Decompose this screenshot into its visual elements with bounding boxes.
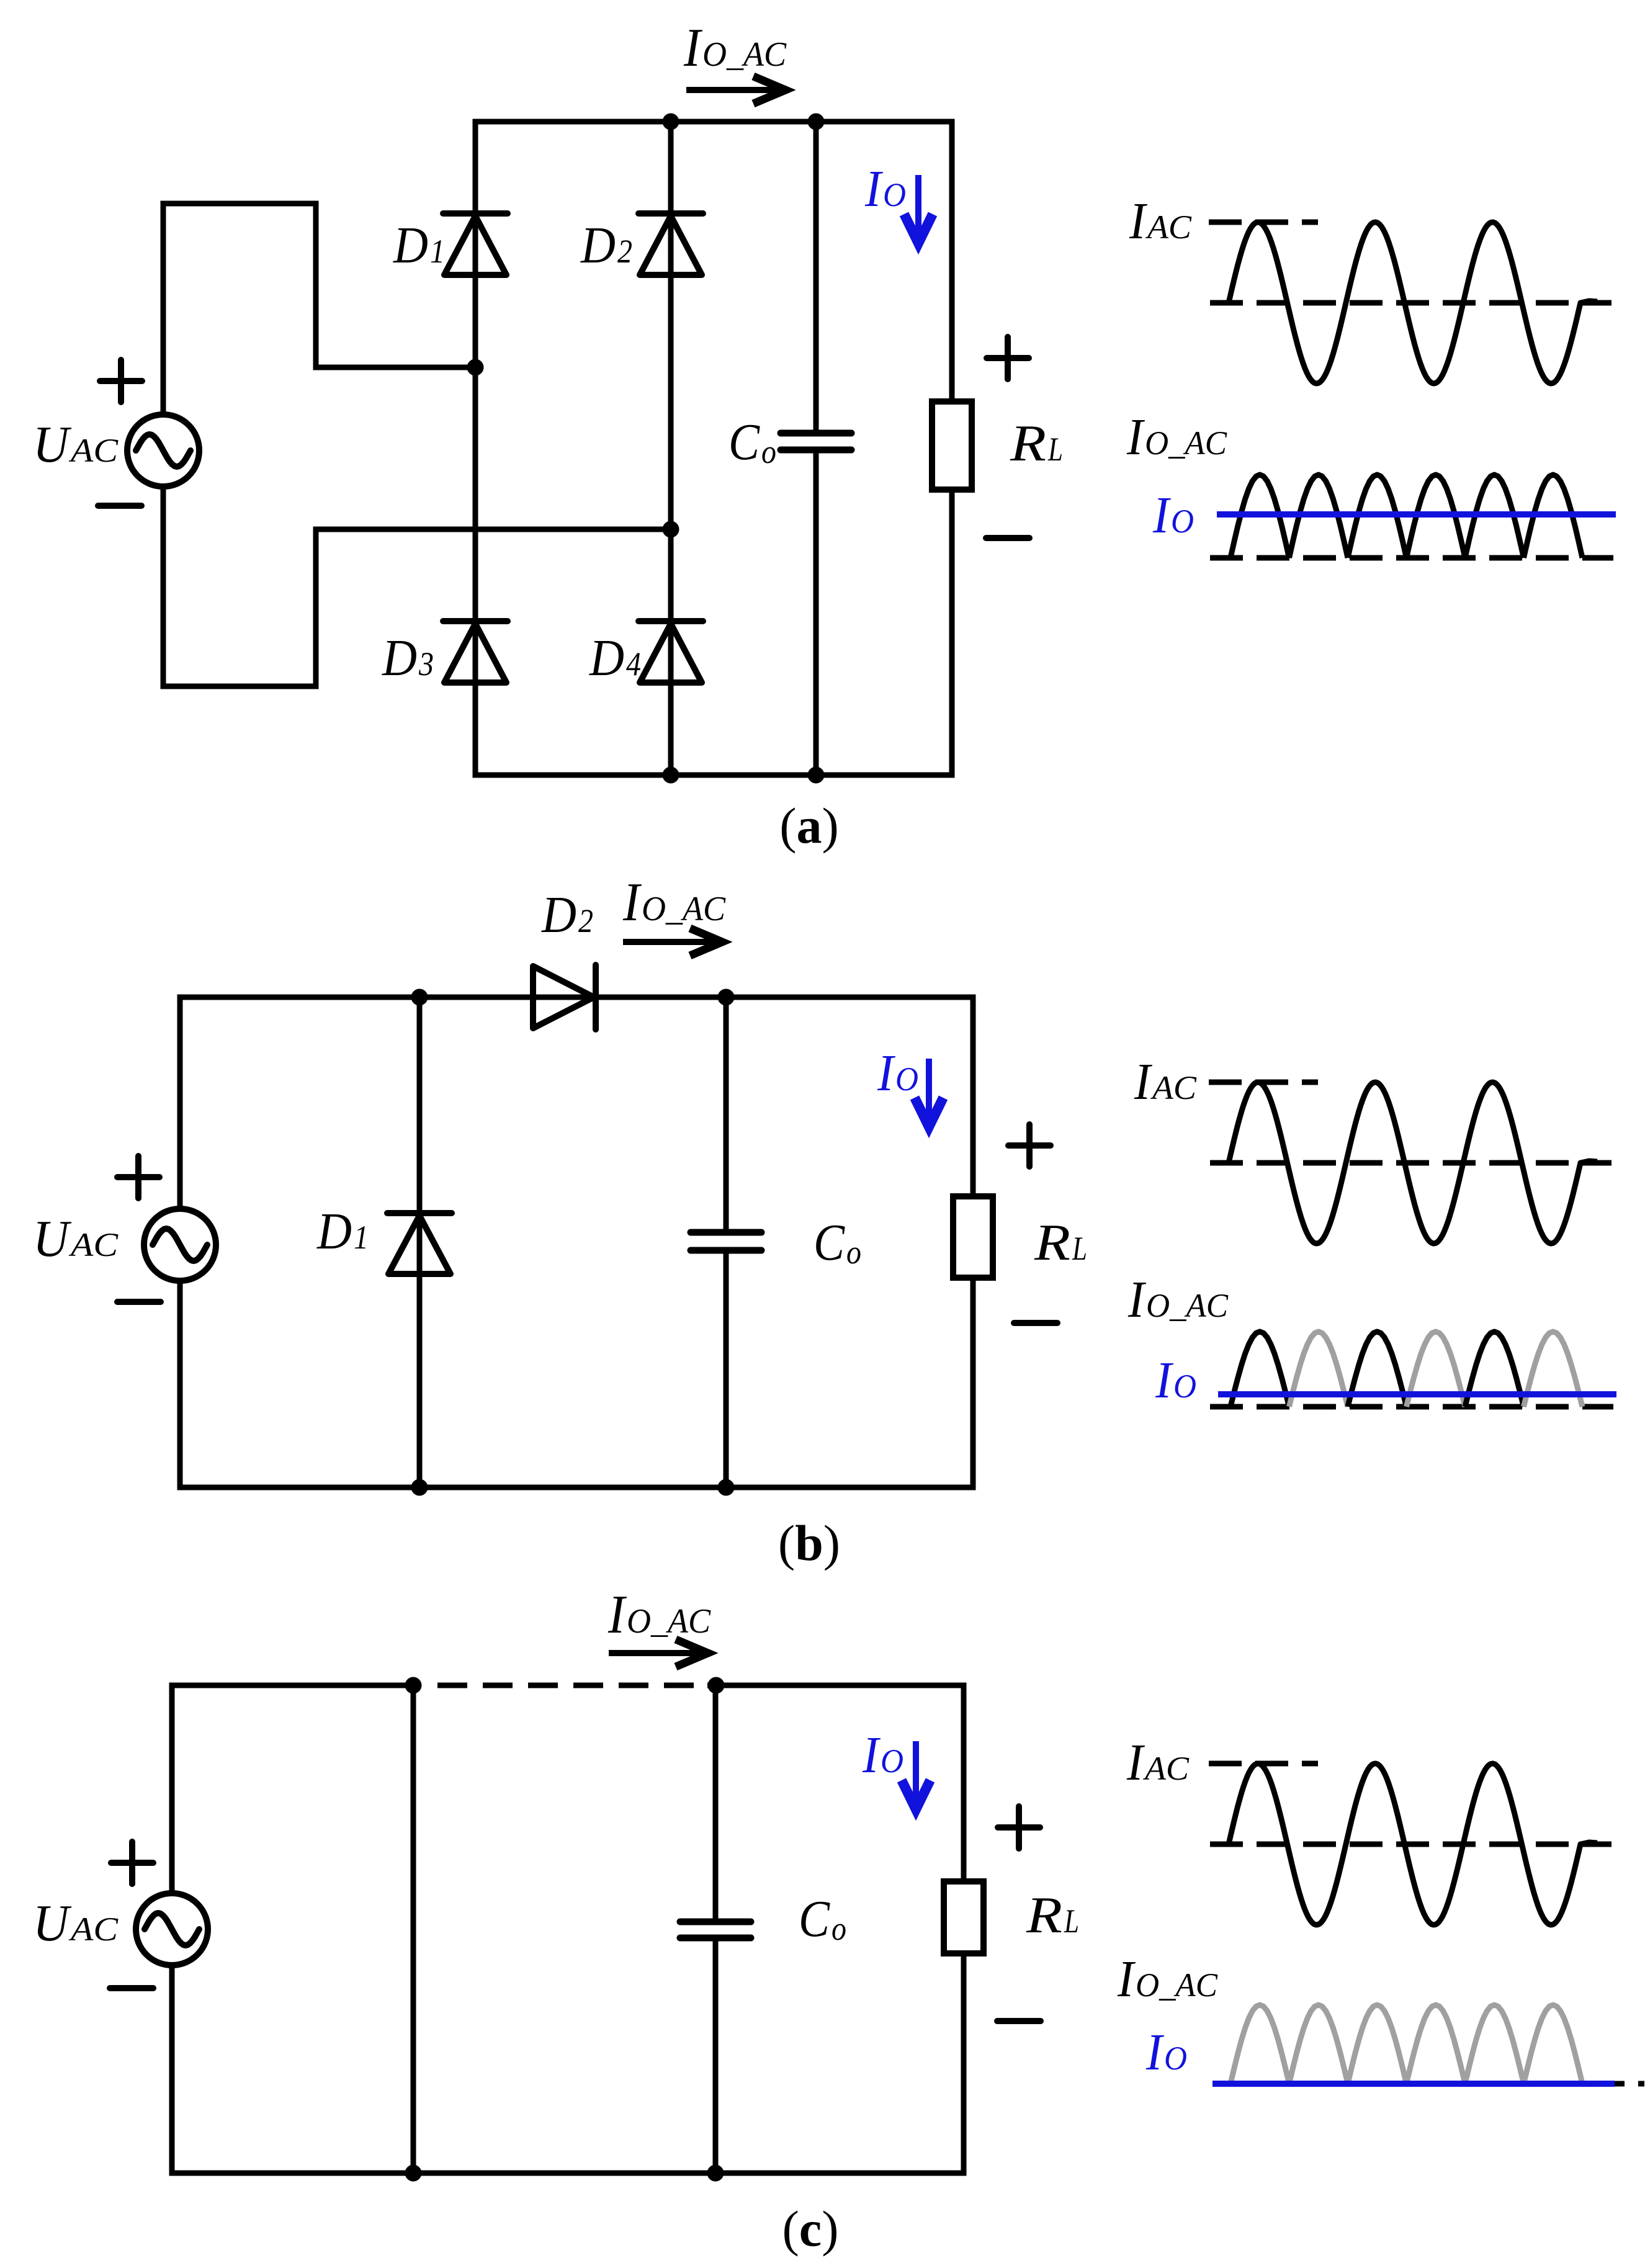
rectified hump 6 (c)	[1524, 2005, 1583, 2084]
svg-text:L: L	[1064, 1903, 1079, 1940]
arrow IO_AC (a)	[686, 87, 777, 93]
junction dot node D2-D4 (a)	[663, 521, 679, 538]
label D1 (b)	[316, 1203, 369, 1260]
svg-text:I: I	[1152, 486, 1172, 544]
rectified hump 4 (c)	[1407, 2005, 1466, 2084]
svg-text:O_AC: O_AC	[702, 35, 787, 74]
wire left vertical lower (b)	[177, 1281, 183, 1487]
svg-text:I: I	[622, 872, 642, 933]
svg-text:I: I	[607, 1585, 627, 1645]
rectified hump 3 (b)	[1348, 1332, 1407, 1407]
wire Co branch upper (a)	[814, 122, 819, 433]
circuit (a): full-bridge rectifier	[33, 18, 1063, 854]
rectified hump 1 (c)	[1230, 2005, 1289, 2084]
svg-text:AC: AC	[1145, 208, 1192, 246]
svg-text:U: U	[33, 1210, 72, 1268]
wire left vertical upper (b)	[177, 997, 183, 1209]
label UAC (a)	[33, 416, 119, 473]
blue IO average line (c)	[1212, 2081, 1615, 2087]
sine curve IAC (b)	[1229, 1082, 1597, 1244]
svg-text:O_AC: O_AC	[627, 1602, 711, 1641]
capacitor Co (a)	[781, 430, 851, 437]
dashed baseline of rectified humps (a)	[1210, 555, 1613, 561]
wire RL branch lower (a)	[949, 490, 955, 775]
arrow IO_AC (c)	[609, 1650, 699, 1656]
rectified hump 2 (c)	[1289, 2005, 1348, 2084]
junction dot node Co bottom (b)	[718, 1479, 735, 1496]
resistor RL (a)	[932, 401, 972, 490]
svg-text:D: D	[580, 217, 616, 274]
svg-text:I: I	[1134, 1053, 1153, 1111]
svg-text:o: o	[761, 433, 776, 470]
wire top rail left segment (c)	[169, 1683, 421, 1688]
svg-text:I: I	[1145, 2024, 1165, 2081]
junction dot node D1 bottom (b)	[411, 1479, 428, 1496]
capacitor Co (b)	[691, 1229, 761, 1236]
minus polarity of RL (a)	[986, 535, 1029, 541]
svg-text:(c): (c)	[782, 2200, 838, 2257]
rectified hump 1 (a)	[1230, 475, 1289, 558]
svg-text:I: I	[1126, 1734, 1145, 1791]
svg-text:C: C	[799, 1890, 830, 1948]
svg-text:O_AC: O_AC	[1146, 1287, 1229, 1324]
svg-text:O: O	[1171, 503, 1194, 540]
wire branch D1-D3 (a)	[473, 122, 478, 775]
plus polarity of UAC (c)	[111, 1860, 153, 1866]
wire branch D1 (b)	[417, 997, 423, 1487]
wire top rail right of D2 (b)	[596, 995, 976, 1000]
svg-text:R: R	[1026, 1886, 1062, 1944]
rectified hump 1 (b)	[1230, 1332, 1289, 1407]
label IO_AC current (a)	[683, 18, 787, 78]
label D3 (a)	[382, 629, 434, 687]
svg-text:L: L	[1072, 1230, 1087, 1267]
label UAC (c)	[33, 1894, 119, 1952]
svg-text:2: 2	[617, 233, 632, 270]
wire top rail (a)	[473, 119, 955, 125]
waveform panel (a)	[1126, 192, 1616, 558]
junction dot node Co top rail (a)	[808, 114, 825, 130]
svg-text:I: I	[1126, 408, 1145, 466]
wire Co branch lower (c)	[713, 1938, 719, 2173]
waveform panel (b)	[1127, 1053, 1616, 1409]
svg-text:O_AC: O_AC	[1136, 1966, 1218, 2004]
dashed zero level line (c)	[1210, 1842, 1611, 1847]
wire middle branch (c)	[411, 1685, 416, 2173]
svg-text:R: R	[1034, 1214, 1070, 1271]
svg-text:AC: AC	[1143, 1750, 1190, 1787]
wire bottom rail (a)	[473, 773, 955, 778]
blue IO average line (a)	[1217, 511, 1616, 518]
arrow IO_AC (b)	[623, 939, 714, 945]
svg-text:I: I	[1127, 1271, 1147, 1329]
arrow IO blue (b)	[926, 1059, 932, 1118]
dashed wire top rail middle (c)	[437, 1683, 696, 1688]
label IO current blue (a)	[864, 160, 906, 218]
svg-text:U: U	[33, 416, 72, 473]
rectified hump 4 (b)	[1407, 1332, 1466, 1407]
svg-text:O: O	[895, 1060, 918, 1098]
svg-text:4: 4	[626, 645, 641, 683]
diode D1 (a)	[443, 210, 508, 217]
resistor RL (b)	[953, 1196, 993, 1278]
wire UAC- to node D2-D4 (a)	[313, 527, 671, 532]
svg-text:D: D	[393, 217, 428, 274]
dashed peak level line (a)	[1209, 220, 1318, 225]
svg-text:U: U	[33, 1894, 72, 1952]
rectified hump 4 (a)	[1407, 475, 1466, 558]
svg-text:I: I	[1155, 1351, 1174, 1409]
wire UAC+ up (a)	[161, 204, 166, 415]
label IAC waveform (a)	[1129, 192, 1192, 250]
junction dot node Co bottom (c)	[707, 2165, 724, 2182]
dashed peak level line (c)	[1209, 1761, 1318, 1767]
dashed baseline of rectified humps (b)	[1210, 1404, 1613, 1410]
svg-text:O: O	[883, 176, 906, 213]
rectified hump 5 (b)	[1465, 1332, 1524, 1407]
svg-text:(b): (b)	[778, 1515, 840, 1571]
wire left vertical lower (c)	[169, 1965, 175, 2173]
wire branch D2-D4 (a)	[668, 122, 674, 775]
resistor RL (c)	[944, 1881, 984, 1953]
arrow IO blue (c)	[913, 1741, 919, 1800]
junction dot node middle bottom (c)	[405, 2165, 422, 2182]
minus polarity of UAC (b)	[117, 1299, 161, 1305]
wire RL branch upper (b)	[970, 997, 976, 1196]
wire Co branch upper (b)	[724, 997, 729, 1232]
capacitor Co (c)	[680, 1919, 751, 1925]
wire left vertical upper (c)	[169, 1685, 175, 1893]
junction dot node D4 bottom rail (a)	[663, 767, 679, 784]
rectified hump 6 (a)	[1524, 475, 1583, 558]
diode D3 (a)	[443, 618, 508, 624]
wire RL branch lower (b)	[970, 1278, 976, 1487]
label IO waveform blue (c)	[1145, 2024, 1187, 2081]
label RL (a)	[1010, 415, 1063, 472]
svg-text:I: I	[864, 160, 884, 218]
minus polarity of RL (c)	[997, 2018, 1041, 2024]
svg-text:I: I	[1129, 192, 1148, 250]
svg-text:O_AC: O_AC	[1145, 424, 1227, 462]
svg-text:1: 1	[354, 1219, 369, 1256]
circuit (c): direct AC drive without rectifier	[33, 1585, 1079, 2257]
junction dot node Co top (c)	[708, 1677, 725, 1694]
label RL (c)	[1026, 1886, 1079, 1944]
svg-text:3: 3	[418, 645, 434, 683]
label D1 (a)	[393, 217, 445, 274]
rectified hump 2 (b)	[1289, 1332, 1348, 1407]
minus polarity of UAC (c)	[110, 1985, 153, 1991]
plus polarity of RL (b)	[1008, 1142, 1051, 1149]
diode D4 (a)	[639, 618, 703, 624]
label Co (a)	[728, 413, 776, 471]
rectified hump 5 (c)	[1465, 2005, 1524, 2084]
svg-text:O: O	[1173, 1368, 1196, 1405]
label RL (b)	[1034, 1214, 1087, 1271]
wire UAC+ top horizontal (a)	[161, 201, 319, 207]
arrow IO blue (a)	[915, 175, 921, 234]
wire Co branch lower (a)	[814, 450, 819, 775]
svg-text:o: o	[846, 1234, 861, 1271]
junction dot node D2 top rail (a)	[663, 114, 679, 130]
label IO current blue (b)	[877, 1044, 918, 1102]
svg-text:o: o	[831, 1910, 846, 1947]
wire UAC+ to node D1-D3 (a)	[313, 365, 476, 370]
svg-text:I: I	[683, 18, 702, 78]
label IO_AC waveform (a)	[1126, 408, 1227, 466]
svg-text:I: I	[862, 1726, 881, 1784]
wire RL branch upper (a)	[949, 122, 955, 401]
svg-text:D: D	[316, 1203, 352, 1260]
label Co (c)	[799, 1890, 846, 1948]
wire UAC- step up (a)	[313, 527, 319, 689]
svg-text:R: R	[1010, 415, 1046, 472]
wire bottom rail (c)	[169, 2171, 967, 2176]
dashed zero level line (a)	[1210, 300, 1611, 306]
wire UAC+ step down (a)	[313, 201, 319, 370]
wire RL branch upper (c)	[961, 1685, 967, 1881]
wire Co branch upper (c)	[713, 1685, 719, 1922]
diode D2 (a)	[639, 210, 703, 217]
svg-text:O: O	[881, 1742, 903, 1780]
svg-text:(a): (a)	[779, 797, 839, 854]
label IAC waveform (c)	[1126, 1734, 1190, 1791]
plus polarity of RL (c)	[998, 1824, 1040, 1831]
svg-text:AC: AC	[69, 1226, 119, 1263]
junction dot node Co top (b)	[718, 989, 735, 1006]
label Co (b)	[814, 1214, 861, 1271]
svg-text:C: C	[728, 413, 760, 471]
rectified hump 2 (a)	[1289, 475, 1348, 558]
label D2 (b)	[541, 886, 593, 944]
label IO_AC current (c)	[607, 1585, 711, 1645]
label IO_AC current (b)	[622, 872, 726, 933]
svg-text:D: D	[382, 629, 417, 687]
wire UAC- bottom horizontal (a)	[161, 684, 319, 689]
label D2 (a)	[580, 217, 632, 274]
AC source UAC (c)	[136, 1893, 208, 1965]
label UAC (b)	[33, 1210, 119, 1268]
blue IO average line (b)	[1218, 1391, 1616, 1397]
wire UAC- down (a)	[161, 486, 166, 686]
svg-text:I: I	[877, 1044, 896, 1102]
label IO waveform blue (a)	[1152, 486, 1194, 544]
dashed zero level line (b)	[1210, 1160, 1611, 1166]
minus polarity of RL (b)	[1014, 1320, 1057, 1326]
wire bottom rail (b)	[177, 1485, 976, 1490]
wire RL branch lower (c)	[961, 1953, 967, 2173]
rectified hump 3 (a)	[1348, 475, 1407, 558]
junction dot node Co bottom rail (a)	[808, 767, 825, 784]
svg-text:O_AC: O_AC	[642, 890, 726, 928]
AC source UAC (a)	[127, 415, 199, 486]
wire top rail right segment (c)	[707, 1683, 967, 1688]
junction dot node middle top (c)	[405, 1677, 422, 1694]
svg-text:AC: AC	[69, 432, 119, 469]
rectified hump 5 (a)	[1465, 475, 1524, 558]
diode D2 (b)	[593, 965, 599, 1029]
label IO_AC waveform (b)	[1127, 1271, 1229, 1329]
plus polarity of UAC (b)	[117, 1174, 159, 1180]
svg-text:L: L	[1047, 431, 1063, 468]
label IO waveform blue (b)	[1155, 1351, 1196, 1409]
junction dot node D1-D3 (a)	[467, 359, 484, 376]
wire top rail left of D2 (b)	[177, 995, 536, 1000]
junction dot node D1 top (b)	[411, 989, 428, 1006]
plus polarity of UAC (a)	[100, 378, 142, 384]
minus polarity of UAC (a)	[98, 503, 141, 509]
svg-text:I: I	[1117, 1950, 1136, 2008]
svg-text:AC: AC	[1150, 1069, 1197, 1106]
svg-text:D: D	[541, 886, 576, 944]
svg-text:O: O	[1164, 2040, 1187, 2077]
sine curve IAC (c)	[1229, 1764, 1597, 1925]
wire Co branch lower (b)	[724, 1250, 729, 1487]
waveform panel (c)	[1117, 1734, 1644, 2084]
dashed baseline of rectified humps (c)	[1592, 2081, 1644, 2087]
svg-text:AC: AC	[69, 1911, 119, 1948]
label D4 (a)	[589, 629, 641, 687]
svg-text:2: 2	[578, 902, 593, 939]
diode D1 (b)	[387, 1210, 452, 1216]
label IO_AC waveform (c)	[1117, 1950, 1218, 2008]
rectified hump 6 (b)	[1524, 1332, 1583, 1407]
label IO current blue (c)	[862, 1726, 903, 1784]
dashed peak level line (b)	[1209, 1080, 1318, 1085]
svg-text:1: 1	[430, 233, 445, 270]
label IAC waveform (b)	[1134, 1053, 1197, 1111]
svg-text:C: C	[814, 1214, 845, 1271]
circuit (b): half-wave rectifier with D1 D2	[33, 872, 1087, 1571]
wire top rail through D2 (b)	[535, 995, 596, 1000]
AC source UAC (b)	[144, 1209, 216, 1281]
sine curve IAC (a)	[1229, 222, 1597, 383]
plus polarity of RL (a)	[987, 355, 1029, 361]
rectified hump 3 (c)	[1348, 2005, 1407, 2084]
svg-text:D: D	[589, 629, 624, 687]
